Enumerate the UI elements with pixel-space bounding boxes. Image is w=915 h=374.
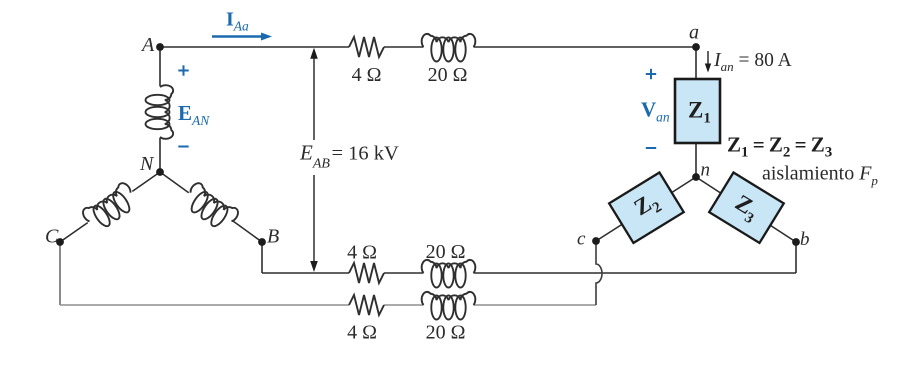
svg-text:= 80 A: = 80 A xyxy=(739,50,792,71)
svg-text:20 Ω: 20 Ω xyxy=(426,322,466,344)
svg-text:4 Ω: 4 Ω xyxy=(352,64,382,86)
svg-text:c: c xyxy=(577,229,586,250)
svg-text:= 16 kV: = 16 kV xyxy=(332,143,400,165)
svg-text:n: n xyxy=(701,160,711,181)
svg-text:4 Ω: 4 Ω xyxy=(347,322,377,344)
svg-text:20 Ω: 20 Ω xyxy=(428,64,468,86)
svg-text:N: N xyxy=(139,153,155,175)
svg-text:aislamiento Fp: aislamiento Fp xyxy=(762,163,878,189)
svg-text:20 Ω: 20 Ω xyxy=(426,241,466,263)
svg-text:b: b xyxy=(800,229,810,250)
svg-text:a: a xyxy=(689,22,699,44)
svg-text:B: B xyxy=(267,226,279,248)
svg-text:A: A xyxy=(140,34,155,56)
svg-text:4 Ω: 4 Ω xyxy=(347,242,377,264)
svg-text:C: C xyxy=(45,226,59,248)
